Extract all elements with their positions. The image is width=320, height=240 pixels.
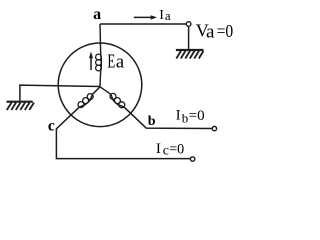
label Ic = 0 xyxy=(156,141,184,158)
svg-text:c: c xyxy=(48,117,55,134)
wire: coil b to corner b xyxy=(124,107,212,129)
Ea EMF arrow (up) xyxy=(89,51,93,70)
open terminal c (small circle) xyxy=(190,157,194,161)
winding A coil (phase a, loops) xyxy=(96,54,102,71)
svg-text:Ia: Ia xyxy=(159,8,171,23)
svg-text:I: I xyxy=(156,141,161,157)
svg-text:b: b xyxy=(182,111,189,126)
open terminal b (small circle) xyxy=(212,126,216,130)
ground G2 hatching xyxy=(176,51,203,59)
svg-text:E: E xyxy=(107,50,115,72)
svg-text:a: a xyxy=(116,53,124,73)
svg-text:a: a xyxy=(93,6,101,23)
open node Va (small circle) xyxy=(186,22,191,27)
label Va = 0 xyxy=(196,21,234,43)
wire: Va node down to ground xyxy=(188,26,190,49)
ground G1 hatching xyxy=(7,103,34,110)
Ia current arrow xyxy=(134,15,157,19)
svg-text:=0: =0 xyxy=(217,21,234,41)
ground G2 bar (right) xyxy=(176,49,204,51)
wire: terminal a lead (vertical into circle) xyxy=(100,24,101,87)
stator circle (machine boundary) xyxy=(58,43,142,127)
neutral node and grounding wire to the left xyxy=(20,85,100,101)
winding B coil stub from neutral xyxy=(100,87,124,107)
winding C coil (phase c, loops) xyxy=(78,94,93,108)
svg-text:=0: =0 xyxy=(189,108,205,124)
wire: top horizontal from a to Va node xyxy=(100,23,186,25)
winding B coil (phase b, loops) xyxy=(110,93,125,107)
wire: coil c to corner c xyxy=(56,107,190,158)
winding C coil stub from neutral xyxy=(79,87,100,107)
svg-text:b: b xyxy=(148,114,156,129)
svg-text:I: I xyxy=(176,107,181,123)
svg-text:=0: =0 xyxy=(169,142,184,158)
label Ib = 0 xyxy=(176,107,205,125)
svg-text:a: a xyxy=(206,22,215,43)
ground G1 bar (left) xyxy=(7,101,33,103)
svg-text:c: c xyxy=(163,143,169,158)
label Ea xyxy=(107,50,124,73)
